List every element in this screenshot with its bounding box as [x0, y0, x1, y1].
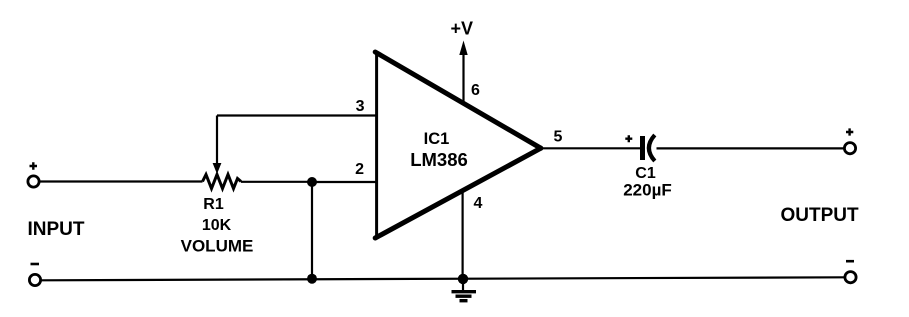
pot wiper arrow: [216, 116, 218, 165]
svg-text:220µF: 220µF: [623, 181, 672, 200]
ground node junction dot: [458, 274, 468, 284]
svg-text:C1: C1: [635, 165, 656, 182]
wire pin 5 to C1: [541, 147, 640, 149]
node B junction dot: [307, 274, 317, 284]
input - polarity mark: [31, 263, 40, 266]
wire wiper to pin 3: [217, 114, 377, 116]
svg-text:INPUT: INPUT: [28, 219, 85, 240]
output - terminal: [845, 272, 856, 283]
wire node A to pin 2: [312, 181, 377, 183]
wire C1 to output +: [657, 147, 845, 149]
pin 4 wire to ground: [462, 191, 464, 279]
svg-text:4: 4: [474, 195, 483, 212]
output - polarity mark: [846, 260, 854, 263]
wire resistor to node A: [241, 181, 312, 183]
resistor R1 (10K volume pot): [203, 175, 242, 189]
svg-text:LM386: LM386: [410, 149, 468, 170]
capacitor C1 curved plate: [649, 135, 655, 161]
capacitor + polarity mark: [625, 135, 632, 142]
output + polarity mark: [846, 128, 853, 135]
input - terminal: [29, 274, 40, 285]
op-amp IC1 triangle: [375, 52, 378, 239]
svg-text:3: 3: [356, 98, 365, 115]
wire input+ to resistor: [40, 180, 203, 182]
wire node A to node B (vertical): [311, 182, 313, 279]
capacitor C1 plus plate: [640, 136, 645, 160]
svg-text:6: 6: [471, 82, 480, 99]
svg-text:IC1: IC1: [424, 130, 450, 148]
bottom ground wire: [41, 277, 845, 280]
output + terminal: [844, 143, 855, 154]
svg-text:VOLUME: VOLUME: [181, 237, 254, 256]
svg-text:OUTPUT: OUTPUT: [781, 205, 860, 226]
input + terminal: [28, 176, 39, 187]
svg-text:+V: +V: [451, 19, 474, 39]
input + polarity mark: [30, 162, 38, 169]
svg-text:2: 2: [355, 161, 364, 178]
svg-text:R1: R1: [203, 196, 224, 213]
node A junction dot: [307, 177, 317, 187]
svg-text:5: 5: [554, 129, 563, 146]
ground symbol: [462, 279, 464, 290]
+V supply line pin 6: [462, 54, 464, 104]
svg-text:10K: 10K: [202, 217, 232, 234]
